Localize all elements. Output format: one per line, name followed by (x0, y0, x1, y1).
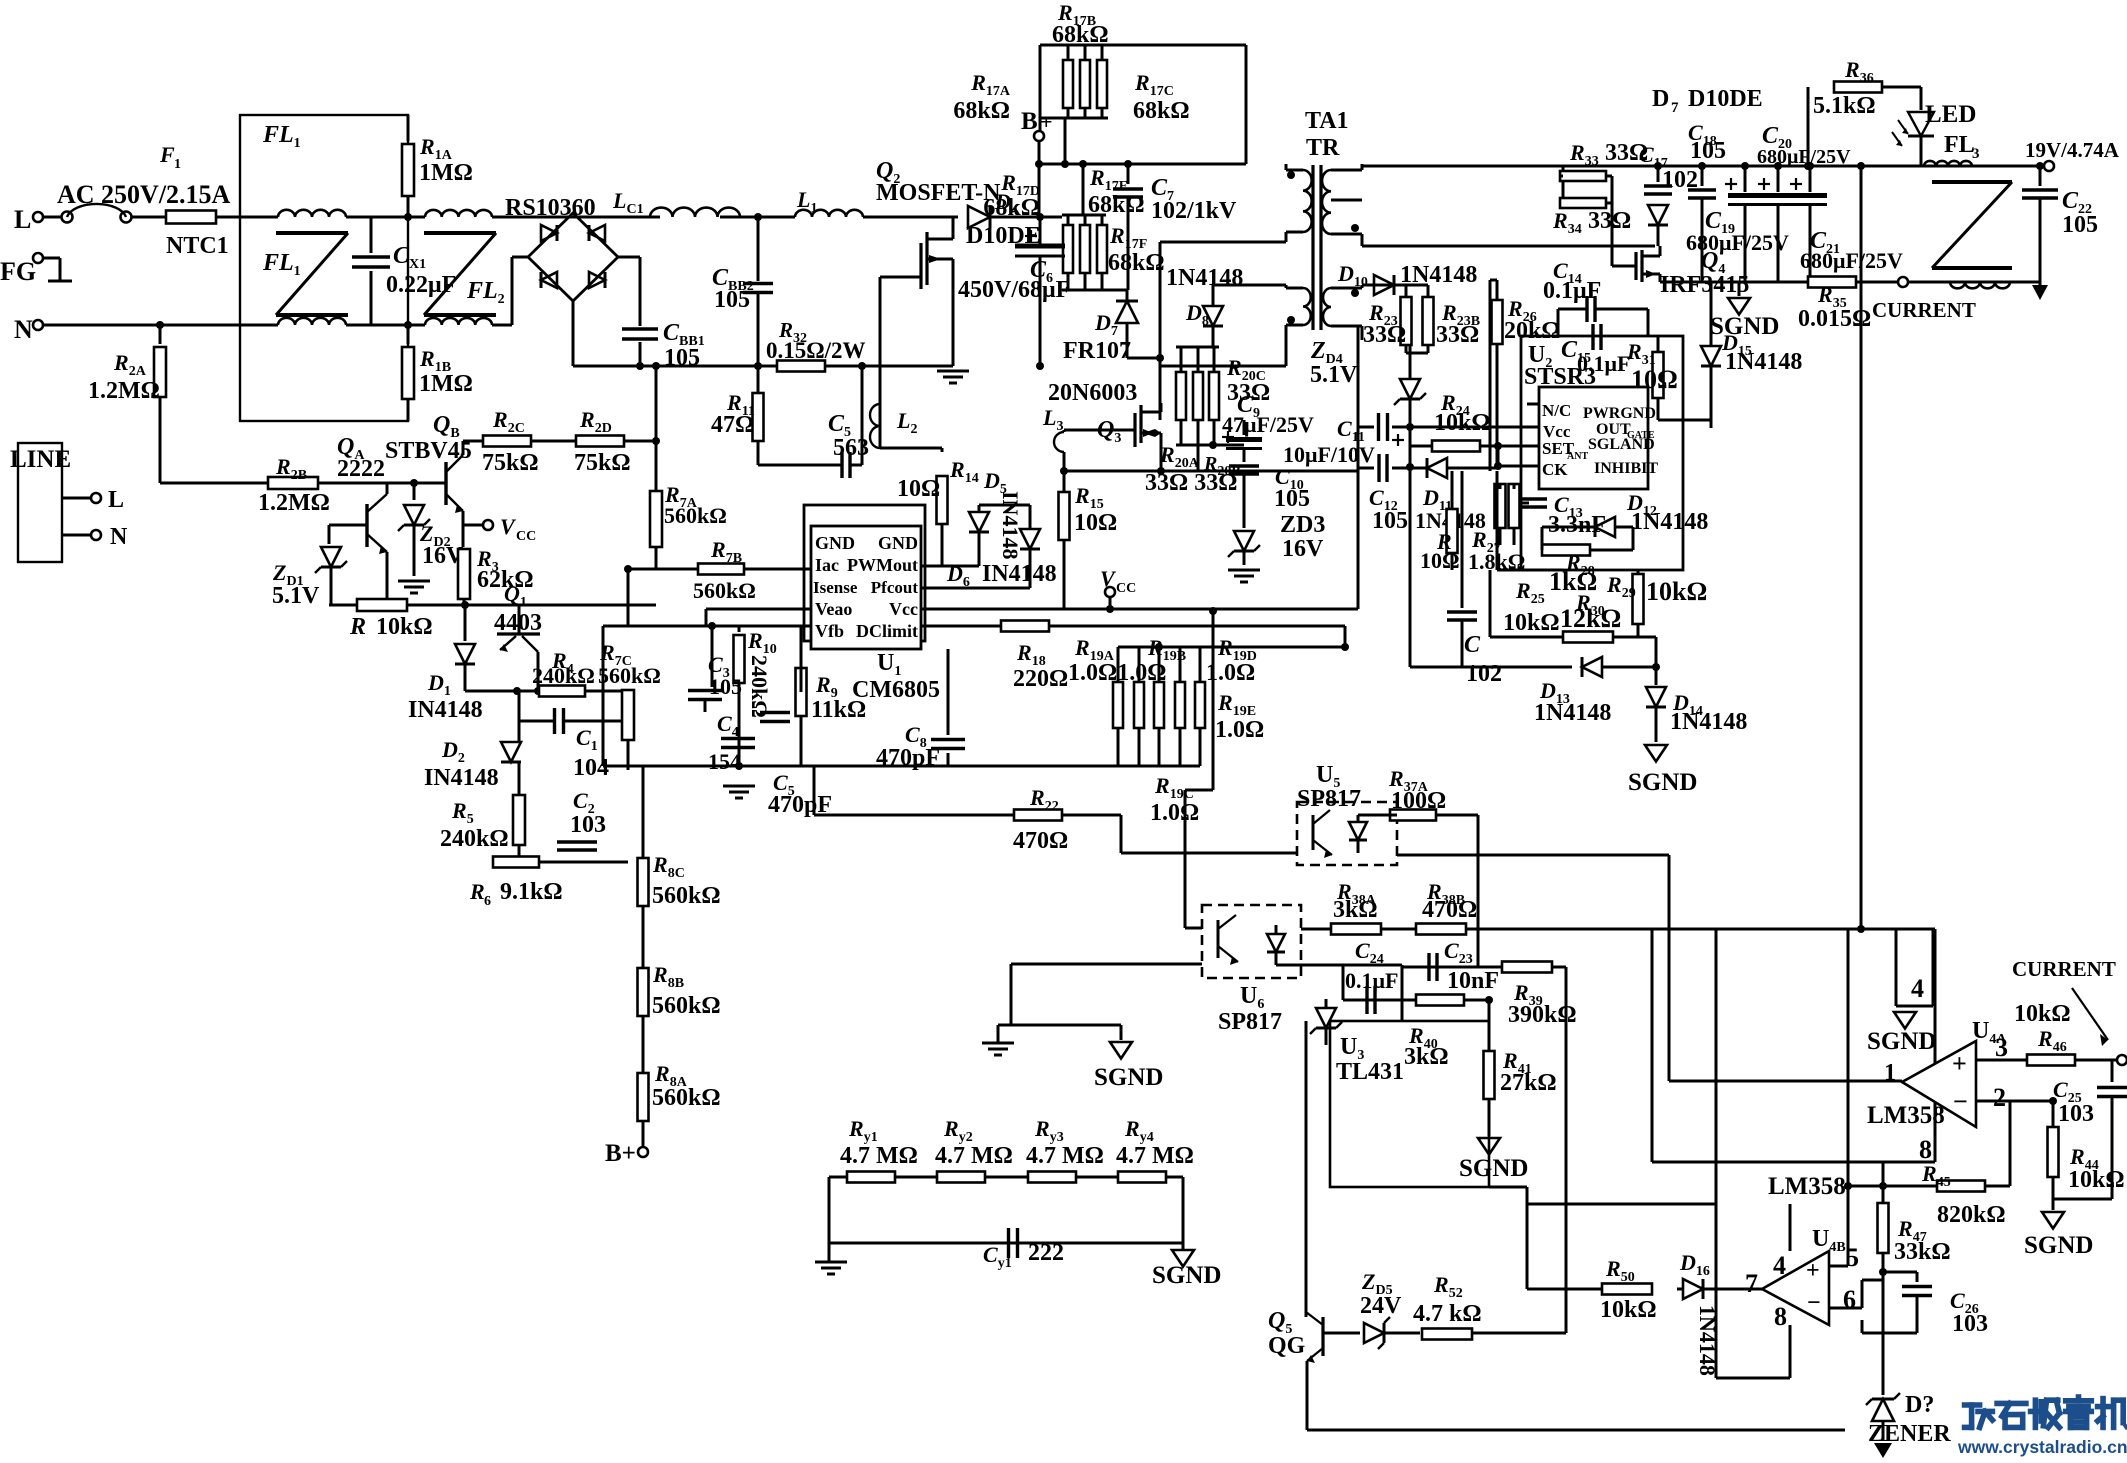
svg-text:5.1V: 5.1V (1310, 362, 1358, 388)
svg-text:ANT: ANT (1567, 451, 1588, 462)
svg-text:10μF/10V: 10μF/10V (1283, 442, 1375, 467)
svg-text:7: 7 (1745, 1269, 1758, 1298)
svg-text:LM358: LM358 (1768, 1173, 1846, 1200)
svg-text:560kΩ: 560kΩ (598, 663, 661, 688)
svg-text:0.15Ω/2W: 0.15Ω/2W (766, 338, 866, 363)
svg-text:3: 3 (1972, 146, 1980, 162)
svg-text:10nF: 10nF (1447, 968, 1499, 994)
svg-text:0.1μF: 0.1μF (1543, 278, 1601, 304)
svg-text:33Ω: 33Ω (1363, 322, 1406, 348)
svg-text:4: 4 (1773, 1251, 1786, 1280)
svg-text:−: − (1807, 1290, 1821, 1316)
svg-text:10kΩ: 10kΩ (1646, 577, 1707, 606)
svg-text:5: 5 (1846, 1243, 1859, 1272)
svg-text:240kΩ: 240kΩ (532, 663, 595, 688)
svg-text:3kΩ: 3kΩ (1333, 897, 1378, 923)
svg-text:154: 154 (708, 749, 741, 774)
svg-text:33Ω: 33Ω (1436, 322, 1479, 348)
svg-text:1.0Ω1.0Ω: 1.0Ω1.0Ω (1068, 660, 1166, 686)
svg-text:47Ω: 47Ω (711, 412, 754, 438)
svg-text:10kΩ: 10kΩ (1600, 1297, 1657, 1323)
svg-text:10kΩ: 10kΩ (2068, 1167, 2125, 1193)
svg-text:1N4148: 1N4148 (1670, 709, 1747, 735)
svg-text:GND: GND (878, 533, 918, 553)
svg-text:V: V (500, 514, 517, 539)
svg-text:470Ω: 470Ω (1013, 828, 1068, 854)
svg-text:560kΩ: 560kΩ (652, 1085, 721, 1111)
svg-text:33kΩ: 33kΩ (1894, 1239, 1951, 1265)
svg-text:LM358: LM358 (1867, 1102, 1945, 1129)
svg-text:68kΩ: 68kΩ (953, 98, 1010, 124)
svg-text:SGND: SGND (2024, 1232, 2093, 1259)
svg-text:68kΩ: 68kΩ (983, 195, 1040, 221)
svg-text:CURRENT: CURRENT (2012, 957, 2116, 981)
svg-text:FG: FG (0, 257, 36, 286)
svg-text:Pfcout: Pfcout (871, 578, 919, 597)
svg-text:IN4148: IN4148 (998, 491, 1023, 559)
svg-text:10Ω: 10Ω (1420, 548, 1460, 573)
svg-text:SP817: SP817 (1297, 786, 1361, 812)
svg-text:GND: GND (815, 533, 855, 553)
svg-text:SP817: SP817 (1218, 1009, 1282, 1035)
svg-text:SGLAND: SGLAND (1588, 436, 1655, 453)
svg-text:103: 103 (570, 812, 606, 838)
svg-text:ZD3: ZD3 (1280, 512, 1325, 538)
svg-text:11kΩ: 11kΩ (811, 697, 866, 723)
svg-text:20kΩ: 20kΩ (1504, 318, 1561, 344)
svg-text:105: 105 (2062, 212, 2098, 238)
svg-text:8: 8 (1774, 1302, 1787, 1331)
svg-text:560kΩ: 560kΩ (664, 503, 727, 528)
svg-text:D?: D? (1905, 1392, 1934, 1418)
svg-text:1N4148: 1N4148 (1166, 265, 1243, 291)
svg-text:+: + (1806, 1258, 1820, 1284)
svg-text:L: L (14, 205, 31, 234)
svg-text:B: B (1021, 108, 1038, 135)
svg-text:N/C: N/C (1542, 401, 1571, 420)
svg-text:www.crystalradio.cn: www.crystalradio.cn (1957, 1437, 2127, 1457)
svg-text:Iac: Iac (815, 555, 839, 575)
svg-text:D: D (1652, 86, 1669, 112)
svg-text:5.1kΩ: 5.1kΩ (1813, 93, 1876, 119)
svg-text:75kΩ: 75kΩ (574, 450, 631, 476)
svg-text:8: 8 (1919, 1135, 1932, 1164)
svg-text:68kΩ: 68kΩ (1108, 250, 1165, 276)
svg-text:SGND: SGND (1628, 769, 1697, 796)
svg-text:222: 222 (1028, 1240, 1064, 1266)
svg-text:16V: 16V (1282, 536, 1324, 562)
svg-text:240kΩ: 240kΩ (747, 655, 772, 718)
svg-text:105: 105 (1372, 508, 1408, 534)
svg-text:560kΩ: 560kΩ (693, 578, 756, 603)
svg-text:N: N (110, 524, 128, 550)
svg-text:100Ω: 100Ω (1391, 788, 1446, 814)
svg-text:3: 3 (1995, 1033, 2008, 1062)
svg-text:10Ω: 10Ω (1631, 365, 1678, 394)
svg-text:10kΩ: 10kΩ (376, 614, 433, 640)
svg-text:FR107: FR107 (1063, 338, 1131, 364)
svg-text:33Ω: 33Ω (1588, 208, 1631, 234)
svg-text:F: F (159, 142, 175, 167)
svg-text:L: L (108, 487, 124, 513)
svg-text:TR: TR (1306, 135, 1340, 161)
svg-text:10kΩ: 10kΩ (2014, 1001, 2071, 1027)
svg-text:4.7 MΩ: 4.7 MΩ (1116, 1143, 1194, 1169)
svg-text:CK: CK (1542, 460, 1568, 479)
svg-text:IN4148: IN4148 (424, 765, 499, 791)
svg-text:1: 1 (174, 157, 181, 172)
svg-text:1N4148: 1N4148 (1631, 509, 1708, 535)
svg-text:0.1μF: 0.1μF (1577, 351, 1630, 376)
svg-text:105: 105 (1690, 138, 1726, 164)
svg-text:4.7 MΩ: 4.7 MΩ (840, 1143, 918, 1169)
svg-text:+: + (1952, 1049, 1967, 1078)
svg-text:NTC1: NTC1 (166, 233, 229, 259)
svg-text:4.7 MΩ: 4.7 MΩ (1026, 1143, 1104, 1169)
svg-text:10Ω: 10Ω (897, 476, 940, 502)
svg-text:SGND: SGND (1152, 1262, 1221, 1289)
svg-text:10kΩ: 10kΩ (1503, 610, 1560, 636)
svg-text:820kΩ: 820kΩ (1937, 1202, 2006, 1228)
svg-text:6: 6 (1843, 1285, 1856, 1314)
svg-text:4.7 MΩ: 4.7 MΩ (935, 1143, 1013, 1169)
svg-text:68kΩ: 68kΩ (1052, 22, 1109, 48)
svg-text:V: V (1100, 566, 1117, 591)
svg-text:D10DE: D10DE (1688, 86, 1763, 112)
svg-text:PWMout: PWMout (847, 555, 918, 575)
svg-text:680μF/25V: 680μF/25V (1757, 146, 1851, 168)
svg-text:105: 105 (1274, 486, 1310, 512)
svg-text:IRF3415: IRF3415 (1660, 272, 1749, 298)
svg-text:SGND: SGND (1459, 1155, 1528, 1182)
svg-text:LED: LED (1925, 101, 1976, 128)
svg-text:103: 103 (1952, 1311, 1988, 1337)
svg-text:450V/68μF: 450V/68μF (958, 277, 1070, 303)
svg-text:20N6003: 20N6003 (1048, 380, 1137, 406)
svg-text:1N4148: 1N4148 (1534, 700, 1611, 726)
svg-text:5.1V: 5.1V (272, 583, 320, 609)
svg-text:4: 4 (1911, 974, 1924, 1003)
svg-text:105: 105 (714, 287, 750, 313)
svg-text:TL431: TL431 (1336, 1059, 1404, 1085)
svg-text:1.0Ω: 1.0Ω (1215, 717, 1264, 743)
svg-text:Vcc: Vcc (889, 599, 918, 619)
svg-text:4.7 kΩ: 4.7 kΩ (1413, 1301, 1482, 1327)
svg-text:N: N (14, 315, 33, 344)
svg-text:105: 105 (709, 674, 742, 699)
svg-text:563: 563 (833, 435, 869, 461)
svg-text:QG: QG (1268, 1333, 1306, 1359)
svg-text:33Ω 33Ω: 33Ω 33Ω (1145, 470, 1237, 496)
svg-text:240kΩ: 240kΩ (440, 826, 509, 852)
svg-text:TA1: TA1 (1305, 108, 1349, 134)
svg-text:102/1kV: 102/1kV (1151, 198, 1237, 224)
svg-text:SGND: SGND (1710, 313, 1779, 340)
svg-text:10Ω: 10Ω (1074, 510, 1117, 536)
svg-text:B+: B+ (605, 1140, 636, 1167)
svg-text:75kΩ: 75kΩ (482, 450, 539, 476)
svg-text:19V/4.74A: 19V/4.74A (2025, 138, 2120, 162)
svg-text:9.1kΩ: 9.1kΩ (500, 879, 563, 905)
svg-text:CC: CC (1116, 581, 1136, 596)
svg-text:IN4148: IN4148 (408, 697, 483, 723)
svg-text:47μF/25V: 47μF/25V (1222, 412, 1314, 437)
svg-text:1MΩ: 1MΩ (419, 371, 473, 397)
svg-text:DClimit: DClimit (856, 621, 918, 641)
svg-text:6: 6 (484, 894, 491, 909)
svg-text:C: C (1464, 632, 1481, 658)
svg-text:24V: 24V (1360, 1293, 1402, 1319)
svg-text:12kΩ: 12kΩ (1560, 604, 1621, 633)
svg-text:SGND: SGND (1094, 1064, 1163, 1091)
svg-text:FL: FL (1944, 132, 1975, 158)
svg-text:680μF/25V: 680μF/25V (1800, 248, 1903, 273)
svg-text:R: R (349, 614, 366, 640)
svg-text:SGND: SGND (1867, 1028, 1936, 1055)
svg-text:IN4148: IN4148 (982, 561, 1057, 587)
svg-text:PWRGND: PWRGND (1583, 405, 1656, 422)
svg-text:1.2MΩ: 1.2MΩ (258, 490, 330, 516)
svg-text:680μF/25V: 680μF/25V (1686, 230, 1789, 255)
svg-text:27kΩ: 27kΩ (1500, 1070, 1557, 1096)
svg-text:10kΩ: 10kΩ (1434, 410, 1491, 436)
svg-text:102: 102 (1466, 661, 1502, 687)
svg-text:68kΩ: 68kΩ (1133, 98, 1190, 124)
svg-text:Veao: Veao (815, 599, 852, 619)
svg-text:−: − (1953, 1087, 1968, 1116)
svg-text:7: 7 (1671, 100, 1679, 116)
svg-text:220Ω: 220Ω (1013, 666, 1068, 692)
svg-text:3kΩ: 3kΩ (1404, 1044, 1449, 1070)
svg-text:1N4148: 1N4148 (1725, 349, 1802, 375)
svg-text:2: 2 (1993, 1083, 2006, 1112)
svg-text:LINE: LINE (10, 446, 71, 473)
svg-text:560kΩ: 560kΩ (652, 883, 721, 909)
svg-text:MOSFET-N: MOSFET-N (876, 180, 1001, 206)
svg-text:560kΩ: 560kΩ (652, 993, 721, 1019)
svg-text:0.1μF: 0.1μF (1345, 968, 1398, 993)
svg-text:Vfb: Vfb (815, 621, 844, 641)
svg-text:470Ω: 470Ω (1422, 897, 1477, 923)
svg-text:1.0Ω: 1.0Ω (1150, 800, 1199, 826)
svg-text:+: + (1040, 109, 1053, 134)
svg-text:1MΩ: 1MΩ (419, 160, 473, 186)
svg-text:1.2MΩ: 1.2MΩ (88, 378, 160, 404)
svg-text:CC: CC (516, 529, 536, 544)
svg-text:R: R (469, 879, 485, 904)
svg-text:103: 103 (2058, 1101, 2094, 1127)
svg-text:0.22μF: 0.22μF (386, 272, 456, 298)
svg-text:CURRENT: CURRENT (1872, 298, 1976, 322)
svg-text:Isense: Isense (813, 578, 858, 597)
svg-text:INHIBIT: INHIBIT (1594, 460, 1658, 477)
svg-text:2222: 2222 (337, 456, 385, 482)
